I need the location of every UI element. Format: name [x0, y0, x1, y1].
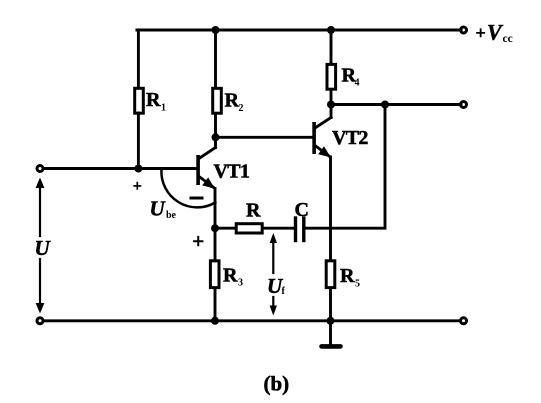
svg-text:R: R — [223, 265, 238, 287]
wire feedback node to R — [215, 227, 236, 230]
terminal input bottom — [37, 318, 43, 324]
svg-text:4: 4 — [355, 78, 360, 89]
svg-text:+: + — [133, 178, 142, 195]
terminal output bottom — [461, 318, 467, 324]
value label C — [295, 199, 309, 221]
wire top rail — [137, 28, 461, 31]
terminal input top — [37, 166, 43, 172]
wire R to C — [264, 227, 295, 230]
svg-text:(b): (b) — [264, 372, 290, 396]
svg-text:3: 3 — [238, 278, 243, 289]
value label Ube — [150, 197, 177, 222]
voltage arrow U input — [36, 178, 45, 314]
value label VT1 — [214, 161, 250, 183]
svg-text:VT1: VT1 — [214, 161, 250, 183]
svg-text:V: V — [487, 20, 504, 45]
polarity - Ube — [191, 197, 202, 200]
resistor R4 — [327, 64, 336, 89]
value label R4 — [342, 65, 360, 89]
node top R2 — [212, 26, 220, 34]
transistor VT1 — [196, 137, 215, 188]
transistor VT2 — [312, 105, 331, 158]
wire VT1 emitter vertical — [214, 189, 217, 229]
resistor R5 — [326, 261, 335, 288]
value label +Vcc — [476, 20, 513, 46]
svg-text:C: C — [295, 199, 309, 221]
node feedback tap — [381, 101, 389, 109]
svg-text:R: R — [225, 90, 240, 112]
resistor R2 — [213, 88, 222, 113]
svg-text:R: R — [146, 89, 161, 111]
capacitor C — [296, 218, 304, 241]
value label U — [35, 236, 52, 260]
svg-text:cc: cc — [503, 33, 513, 45]
terminal +Vcc — [461, 27, 467, 33]
node R3 ground — [211, 317, 219, 325]
wire R3 to ground rail — [214, 289, 217, 321]
node top R4 — [327, 26, 335, 34]
voltage arrow Uf — [270, 233, 277, 316]
node R1 base rail — [134, 165, 142, 173]
svg-text:R: R — [340, 265, 355, 287]
wire R1 branch vertical — [137, 30, 140, 88]
value label R3 — [223, 265, 243, 289]
svg-text:R: R — [246, 200, 261, 222]
value label R — [246, 200, 261, 222]
node output below R4 — [327, 101, 335, 109]
svg-text:VT2: VT2 — [332, 127, 368, 149]
ground — [322, 321, 341, 347]
wire R4 branch vertical — [330, 30, 333, 63]
wire R2 to VT1 collector node — [214, 115, 217, 138]
wire R2 branch vertical — [214, 30, 217, 87]
resistor R1 — [135, 88, 144, 113]
node ground junction — [327, 317, 335, 325]
svg-text:f: f — [282, 286, 286, 297]
svg-text:+: + — [192, 229, 204, 253]
svg-text:U: U — [35, 236, 52, 260]
wire VT2 emitter vertical — [329, 157, 332, 259]
resistor R — [236, 224, 262, 233]
wire bottom rail — [44, 319, 460, 322]
wire input to VT1 base — [44, 167, 197, 170]
value label VT2 — [332, 127, 368, 149]
value label R1 — [146, 89, 166, 114]
polarity + input — [133, 178, 142, 195]
svg-text:1: 1 — [161, 103, 166, 114]
value label R5 — [340, 265, 360, 290]
svg-text:+: + — [476, 23, 486, 43]
value label Uf — [267, 274, 286, 298]
voltage arc Ube — [161, 169, 215, 207]
wire VT1 collector to VT2 base — [216, 136, 313, 139]
polarity + Uf — [192, 229, 204, 253]
wire C to feedback corner — [306, 105, 386, 229]
caption (b) — [264, 372, 290, 396]
wire emitter to R3 — [214, 228, 217, 261]
wire R4 to output node — [330, 91, 333, 105]
wire output rail — [331, 103, 461, 106]
node emitter feedback — [211, 224, 219, 232]
terminal output — [461, 102, 467, 108]
resistor R3 — [210, 261, 219, 288]
wire R5 to ground rail — [329, 289, 332, 321]
svg-text:U: U — [150, 197, 167, 221]
svg-text:be: be — [166, 210, 177, 221]
value label R2 — [225, 90, 244, 115]
svg-text:5: 5 — [355, 279, 360, 290]
wire R1 to base rail — [137, 113, 140, 169]
svg-text:2: 2 — [239, 103, 244, 114]
node VT1 collector — [212, 133, 220, 141]
